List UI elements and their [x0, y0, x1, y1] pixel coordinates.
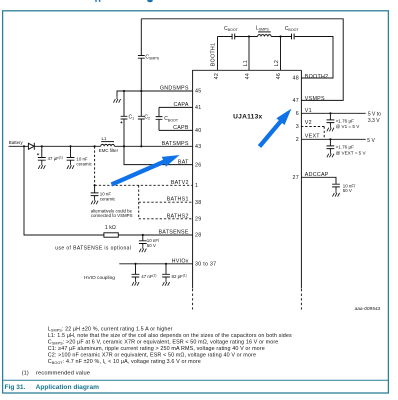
svg-text:5 V: 5 V — [367, 138, 375, 144]
svg-text:28: 28 — [195, 233, 201, 239]
ground VEXT cap — [327, 151, 334, 157]
svg-text:48: 48 — [293, 76, 299, 82]
wire VSMPS outer loop — [141, 19, 343, 101]
svg-text:Application diagram: Application diagram — [36, 384, 100, 391]
wire BAT — [124, 146, 193, 164]
svg-text:C1: ≥47 μF aluminum, ripple cu: C1: ≥47 μF aluminum, ripple current rati… — [48, 346, 265, 352]
IC UJA113x box — [193, 70, 302, 288]
wire V1 — [301, 112, 366, 114]
svg-text:GNDSMPS: GNDSMPS — [160, 86, 189, 92]
wire VEXT — [301, 138, 366, 140]
svg-text:BATSENSE: BATSENSE — [158, 230, 188, 236]
wire battery rail — [9, 145, 29, 147]
wire battery to BATSENSE row — [24, 146, 193, 235]
inductor L1 (EMC filter) — [101, 144, 115, 146]
wire V2 dashed — [301, 127, 324, 140]
svg-text:29: 29 — [195, 217, 201, 223]
svg-text:47: 47 — [293, 98, 299, 104]
svg-text:3: 3 — [296, 124, 299, 130]
wire dashed BATHS tie — [139, 185, 193, 219]
node C2 bottom — [140, 145, 142, 147]
svg-text:CSMPS: >20 μF at 6 V, ceramic: CSMPS: >20 μF at 6 V, ceramic X7R or equ… — [48, 339, 279, 345]
svg-text:>1.76 μF: >1.76 μF — [336, 118, 355, 123]
svg-text:V1: V1 — [305, 108, 312, 114]
ground BATV2 cap — [91, 198, 98, 204]
node BAT drop — [123, 145, 125, 147]
node C2 top — [140, 90, 142, 92]
wire L1 drop — [248, 37, 250, 71]
capacitor 47uF electrolytic — [38, 146, 46, 162]
svg-text:@ VEXT = 5 V: @ VEXT = 5 V — [336, 150, 367, 155]
svg-text:HVIOx: HVIOx — [172, 259, 189, 265]
svg-text:BAT: BAT — [178, 159, 189, 165]
svg-text:27: 27 — [293, 175, 299, 181]
node HVIO cap2 — [165, 263, 167, 265]
labels — [158, 43, 328, 268]
capacitor 10nF/50V on BATSENSE — [142, 234, 144, 236]
node C1 bottom — [123, 145, 125, 147]
svg-text:BATSMPS: BATSMPS — [162, 141, 189, 147]
capacitor 10nF ceramic on BATV2 — [91, 185, 99, 198]
blue arrow 2 — [258, 109, 292, 148]
ground GNDSMPS — [113, 96, 120, 102]
svg-text:50 V: 50 V — [343, 188, 352, 193]
wire HVIOx — [119, 263, 192, 265]
svg-text:26: 26 — [195, 162, 201, 168]
capacitor C2 — [138, 91, 145, 146]
svg-text:(1): (1) — [22, 370, 29, 376]
notes — [22, 326, 292, 376]
svg-text:38: 38 — [195, 200, 201, 206]
svg-text:1 kΩ: 1 kΩ — [105, 225, 116, 231]
svg-text:CAPA: CAPA — [173, 102, 188, 108]
node V1 cap — [329, 112, 331, 114]
svg-text:aaa-009543: aaa-009543 — [355, 306, 381, 312]
svg-text:L1: 1.5 μH, note that the size: L1: 1.5 μH, note that the size of the co… — [48, 333, 292, 339]
svg-text:BATV2: BATV2 — [171, 180, 189, 186]
svg-text:ceramic: ceramic — [76, 162, 92, 167]
node L1 drop — [248, 35, 250, 37]
blue arrow 1 — [111, 155, 180, 187]
svg-text:50 V: 50 V — [147, 243, 156, 248]
node dashed branch junction — [94, 145, 96, 147]
capacitor CBOOT between CAPA CAPB — [156, 107, 193, 130]
capacitor VEXT — [327, 139, 335, 151]
ground V1 cap — [327, 125, 334, 131]
svg-text:L2: L2 — [274, 60, 280, 66]
svg-text:BATHS1: BATHS1 — [167, 197, 189, 203]
node BATV2 cap junction — [94, 184, 96, 186]
wire dashed BATV2 branch — [95, 146, 193, 185]
svg-text:45: 45 — [195, 89, 201, 95]
svg-text:30 to 37: 30 to 37 — [195, 262, 216, 268]
inductor LSMPS — [258, 35, 272, 37]
capacitor C1 — [121, 91, 128, 146]
node VEXT cap — [329, 138, 331, 140]
svg-text:43: 43 — [195, 144, 201, 150]
svg-text:BOOTH1: BOOTH1 — [210, 43, 216, 67]
caption Fig 31 — [5, 384, 100, 391]
node 10nF junction — [69, 145, 71, 147]
svg-text:UJA113x: UJA113x — [233, 114, 262, 121]
ground HVIO cap2 — [162, 279, 169, 285]
capacitor CSMPS — [138, 19, 145, 91]
node HVIO cap1 — [134, 263, 136, 265]
svg-text:VEXT: VEXT — [305, 133, 320, 139]
ground ADCCAP cap — [332, 190, 339, 196]
svg-text:3.3 V: 3.3 V — [368, 118, 380, 124]
svg-text:CBOOT: 4.7 nF ±20 %, IL < 10 μ: CBOOT: 4.7 nF ±20 %, IL < 10 μA, voltage… — [48, 359, 201, 365]
svg-text:44: 44 — [245, 73, 251, 79]
svg-text:41: 41 — [195, 105, 201, 111]
node battery drop — [23, 145, 25, 147]
capacitor 10nF ceramic — [67, 146, 75, 162]
capacitor CBOOT left — [232, 34, 235, 40]
svg-text:HVIO coupling: HVIO coupling — [84, 275, 115, 281]
diode — [28, 143, 34, 149]
ground 10nF — [67, 163, 74, 169]
svg-text:BATHS2: BATHS2 — [167, 214, 189, 220]
svg-text:46: 46 — [276, 73, 282, 79]
wire L2 drop — [280, 37, 282, 71]
svg-text:L1: L1 — [243, 60, 249, 66]
svg-text:ADCCAP: ADCCAP — [305, 172, 329, 178]
wire SMPS top rail — [218, 37, 334, 79]
capacitor CBOOT right — [292, 34, 295, 40]
svg-text:LSMPS: 22 μH ±20 %, current ra: LSMPS: 22 μH ±20 %, current rating 1.5 A… — [48, 326, 173, 332]
ground HVIO cap1 — [132, 279, 139, 285]
wire GNDSMPS — [117, 91, 193, 96]
svg-text:CAPB: CAPB — [173, 125, 189, 131]
ground BATSENSE cap — [139, 246, 146, 252]
svg-text:5 V to: 5 V to — [368, 111, 381, 117]
svg-text:recommended value: recommended value — [36, 370, 90, 376]
capacitor 82pF HVIO — [162, 264, 170, 280]
svg-text:>1.76 μF: >1.76 μF — [336, 145, 355, 150]
svg-text:VSMPS: VSMPS — [305, 96, 325, 102]
svg-text:Fig 31.: Fig 31. — [5, 384, 26, 391]
svg-text:1: 1 — [195, 183, 198, 189]
svg-text:@ V1 = 5 V: @ V1 = 5 V — [336, 124, 361, 129]
svg-text:V2: V2 — [305, 120, 312, 126]
wire ADCCAP — [301, 177, 340, 190]
svg-text:Battery: Battery — [9, 140, 24, 145]
svg-text:C2: >100 nF ceramic X7R or equ: C2: >100 nF ceramic X7R or equivalent, E… — [48, 352, 256, 358]
node C1 top — [123, 90, 125, 92]
node L2 drop — [279, 35, 281, 37]
svg-text:connected to VSMPS: connected to VSMPS — [91, 213, 133, 218]
svg-text:L1: L1 — [102, 136, 107, 141]
ground 47uF — [38, 163, 45, 169]
capacitor V1 — [327, 113, 335, 125]
svg-text:use of BATSENSE is optional: use of BATSENSE is optional — [55, 245, 131, 251]
svg-text:40: 40 — [195, 128, 201, 134]
capacitor 47nF HVIO — [132, 264, 140, 280]
svg-text:EMC filter: EMC filter — [99, 148, 119, 153]
svg-text:42: 42 — [214, 73, 220, 79]
svg-text:ceramic: ceramic — [100, 196, 116, 201]
svg-text:2: 2 — [296, 137, 299, 143]
node 47uF junction — [41, 145, 43, 147]
wire BOOTH1 drop — [217, 37, 219, 71]
svg-text:6: 6 — [296, 111, 299, 117]
svg-text:BOOTH2: BOOTH2 — [305, 74, 329, 80]
resistor 1 kOhm — [104, 233, 118, 237]
